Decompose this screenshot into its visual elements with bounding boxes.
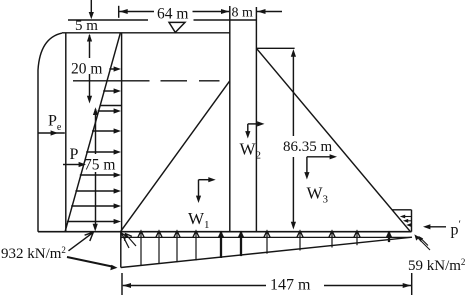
147 m dimension right tick bbox=[411, 273, 413, 295]
svg-text:86.35 m: 86.35 m bbox=[283, 139, 333, 155]
uplift arrow 1b (tilted toward heel) bbox=[126, 234, 136, 246]
5 m dimension down arrowhead bbox=[89, 12, 94, 19]
75 m dimension up arrowhead bbox=[93, 107, 98, 115]
central slant line heel to crest block edge bbox=[121, 81, 230, 231]
svg-text:147 m: 147 m bbox=[270, 277, 311, 294]
tailwater pressure p' box top bbox=[392, 209, 411, 211]
water pressure arrow row 9 bbox=[67, 221, 116, 223]
dashed reservoir level line dash 2 bbox=[161, 80, 188, 82]
upper horizontal line (5 m level) right segment bbox=[194, 19, 257, 21]
uplift arrow 12 (bold) bbox=[388, 232, 390, 243]
water pressure arrow row 4 bbox=[92, 130, 116, 132]
86.35 m dimension up arrowhead bbox=[291, 49, 296, 57]
uplift arrow 1 (tilted toward heel) bbox=[122, 234, 129, 248]
75 m dimension down arrowhead bbox=[93, 224, 98, 232]
75 m dimension shaft lower segment bbox=[95, 172, 97, 229]
W3 component symbol right arm bbox=[307, 156, 333, 158]
base line bbox=[38, 231, 412, 233]
svg-text:64 m: 64 m bbox=[157, 6, 188, 23]
tailwater pressure p' box right edge bbox=[411, 210, 413, 232]
uplift arrow 11 bbox=[356, 231, 358, 245]
64 m dimension left tick bbox=[118, 6, 120, 18]
svg-text:932 kN/m2: 932 kN/m2 bbox=[1, 245, 66, 262]
86.35 m dimension down arrowhead bbox=[291, 222, 296, 230]
20 m dimension shaft lower segment bbox=[89, 74, 91, 100]
silt level line inside pressure triangle bbox=[100, 105, 122, 107]
59 label leader 2 bbox=[421, 238, 429, 246]
86.35 m dimension shaft upper segment bbox=[292, 53, 294, 136]
uplift diagram bottom slant bbox=[121, 237, 412, 267]
tailwater pressure arrow 3 bbox=[408, 224, 412, 226]
932 label leader to uplift apex (thick) bbox=[67, 257, 112, 267]
uplift arrow 4 bbox=[176, 231, 178, 262]
147 m dimension line left segment bbox=[123, 285, 266, 287]
uplift diagram top line bbox=[121, 236, 412, 238]
8 m dimension arrow tail line bbox=[257, 11, 282, 13]
water surface symbol (nabla) bbox=[169, 22, 185, 32]
water pressure triangle hypotenuse bbox=[65, 33, 120, 231]
59 label leader 1 bbox=[417, 237, 431, 251]
water pressure arrow row 6 bbox=[80, 174, 116, 176]
W2 component symbol right arm bbox=[248, 123, 260, 125]
water pressure arrow row 3 bbox=[98, 110, 116, 112]
p' label leader line bbox=[425, 226, 446, 228]
downstream face slant bbox=[256, 48, 410, 231]
uplift arrow 5 bbox=[195, 231, 197, 260]
svg-text:20 m: 20 m bbox=[71, 60, 102, 77]
64 m dimension line left segment bbox=[119, 11, 154, 13]
20 m dimension shaft upper segment bbox=[89, 35, 91, 58]
crest block right vertical (W2 column right edge) bbox=[255, 7, 257, 232]
8 m dimension left-pointing arrowhead at right tick bbox=[257, 9, 265, 14]
water pressure arrow row 8 bbox=[71, 205, 116, 207]
5 m dimension arrow shaft (from top) bbox=[90, 0, 92, 16]
uplift arrow 10 bbox=[331, 231, 333, 247]
earthquake pressure curve (parabolic outer edge) bbox=[38, 33, 62, 70]
20 m dimension up arrowhead bbox=[87, 34, 92, 42]
W1 component symbol down shaft bbox=[198, 180, 200, 199]
W3 component symbol down shaft bbox=[306, 157, 308, 176]
dashed reservoir level line dash 3 bbox=[199, 80, 220, 82]
147 m dimension line right segment bbox=[324, 285, 411, 287]
Pe force arrow line bbox=[38, 132, 65, 134]
dam crest line bbox=[62, 32, 230, 34]
uplift arrow 2 bbox=[140, 231, 142, 265]
svg-text:8 m: 8 m bbox=[232, 6, 254, 21]
75 m dimension shaft upper segment bbox=[95, 109, 97, 154]
64 m dimension line right segment bbox=[193, 11, 230, 13]
uplift diagram left edge bbox=[120, 232, 122, 268]
uplift arrow 3 bbox=[158, 231, 160, 264]
water pressure arrow row 5 bbox=[86, 151, 116, 153]
Pe force arrowhead bbox=[51, 130, 58, 135]
uplift arrow 8 bbox=[266, 231, 268, 254]
water pressure arrow row 2 bbox=[103, 90, 116, 92]
tailwater pressure arrow 2 bbox=[405, 220, 412, 222]
147 m dimension right arrowhead bbox=[403, 283, 411, 288]
downstream shoulder reference line bbox=[256, 47, 294, 49]
dam upstream face bbox=[121, 33, 123, 232]
uplift arrow 7 (bold) bbox=[240, 232, 242, 257]
earthquake pressure diagram left vertical edge bbox=[37, 70, 39, 232]
W2 component symbol down shaft bbox=[247, 124, 249, 135]
932 label leader to pressure triangle base bbox=[69, 233, 94, 251]
W1 component symbol right arm bbox=[199, 179, 212, 181]
64 m dimension right arrowhead bbox=[221, 9, 229, 14]
water pressure arrow row 1 bbox=[109, 68, 116, 70]
uplift arrow 9 bbox=[299, 231, 301, 250]
20 m dimension down arrowhead bbox=[87, 96, 92, 104]
86.35 m dimension shaft lower segment bbox=[292, 157, 294, 225]
p' label leader arrowhead bbox=[423, 224, 430, 229]
147 m dimension left arrowhead bbox=[123, 283, 131, 288]
pressure diagram inner vertical line x=66 bbox=[65, 33, 67, 232]
water pressure arrow row 7 bbox=[75, 190, 116, 192]
64 m dimension left arrowhead bbox=[119, 9, 127, 14]
upper horizontal line (5 m level) left segment bbox=[68, 19, 148, 21]
P force arrow bbox=[63, 164, 79, 166]
svg-text:75 m: 75 m bbox=[84, 157, 115, 174]
uplift pressure arrows bbox=[121, 231, 393, 266]
dashed reservoir level line dash 1 bbox=[73, 80, 150, 82]
crest block left vertical (W2 column left edge) bbox=[229, 6, 231, 232]
svg-text:5 m: 5 m bbox=[75, 18, 98, 34]
svg-text:59 kN/m2: 59 kN/m2 bbox=[408, 257, 465, 274]
147 m dimension left tick bbox=[121, 273, 123, 295]
svg-text:P: P bbox=[70, 146, 79, 163]
tailwater pressure arrow 1 bbox=[402, 216, 412, 218]
uplift arrow 6 (bold) bbox=[220, 232, 222, 258]
